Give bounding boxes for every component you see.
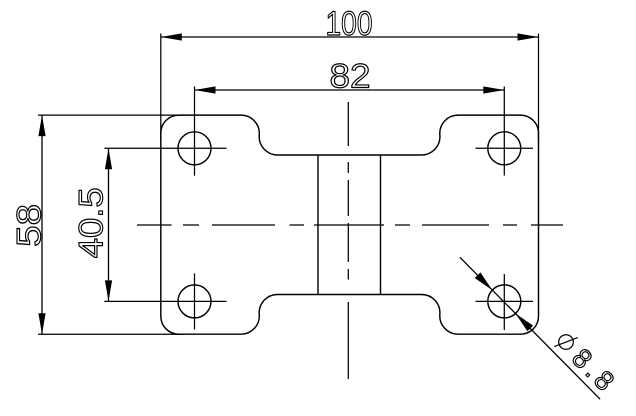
channel left line: [317, 155, 319, 295]
dim 100 line: [161, 36, 539, 38]
vertical centerline (dash-dot): [347, 102, 349, 379]
dim 100 arrow right: [518, 33, 539, 40]
dim 58 extension line top: [38, 114, 185, 116]
crosshair horizontal top-left hole (also ext line of 40.5): [104, 147, 226, 149]
dim 100 arrow left: [161, 33, 182, 40]
dim 40.5 line: [108, 148, 110, 301]
crosshair vertical top-right hole (also ext line of 82): [503, 87, 505, 176]
crosshair horizontal bottom-left hole (also ext line of 40.5): [104, 300, 226, 302]
crosshair horizontal bottom-right hole: [476, 300, 534, 302]
crosshair vertical top-left hole (also ext line of 82): [194, 87, 196, 176]
crosshair horizontal top-right hole: [476, 147, 534, 149]
svg-text:58: 58: [10, 204, 48, 247]
crosshair vertical bottom-left hole: [194, 273, 196, 329]
dim 100 extension line left: [160, 34, 162, 141]
dia symbol circle: [559, 335, 574, 350]
channel right line: [380, 155, 382, 295]
hole top-left: [178, 132, 211, 165]
svg-text:82: 82: [330, 58, 371, 96]
leader arrow upper: [475, 272, 493, 290]
dim 58 line: [41, 115, 43, 334]
svg-text:40.5: 40.5: [73, 187, 111, 258]
svg-text:100: 100: [326, 5, 373, 43]
dim 82 arrow right: [483, 86, 504, 93]
leader arrow lower: [516, 314, 534, 332]
dim 100 extension line right: [538, 34, 540, 141]
dim 58 arrow top: [38, 115, 45, 136]
dim 40.5 arrow bottom: [105, 280, 112, 301]
hole top-right: [488, 132, 521, 165]
hole bottom-right: [488, 285, 521, 318]
hole bottom-left: [178, 285, 211, 318]
dim 82 arrow left: [195, 86, 216, 93]
dim 40.5 arrow top: [105, 148, 112, 169]
dia symbol slash: [554, 338, 577, 347]
leader line diameter: [460, 257, 600, 399]
dim 58 arrow bottom: [38, 313, 45, 334]
crosshair vertical bottom-right hole: [503, 274, 505, 330]
dim 58 extension line bottom: [38, 333, 185, 335]
dim 82 line: [195, 89, 505, 91]
horizontal centerline (dash-dot): [137, 224, 563, 226]
plate outline: [161, 115, 539, 334]
